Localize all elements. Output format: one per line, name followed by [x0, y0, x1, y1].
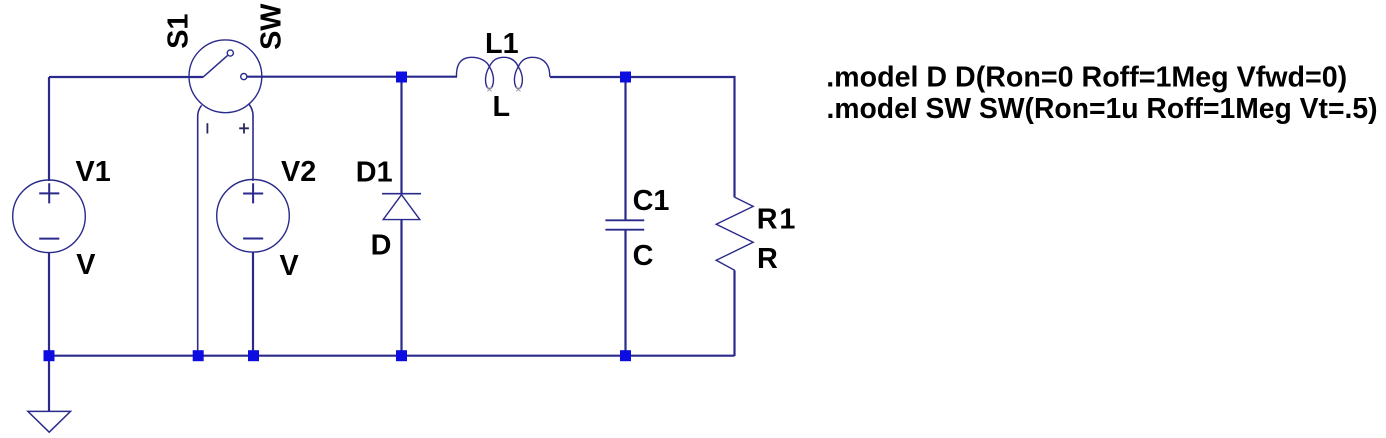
inductor pin x-mark left: [487, 87, 491, 91]
wire diode bottom: [400, 220, 402, 356]
wire capacitor top: [624, 77, 626, 220]
resistor R1 zigzag: [716, 197, 753, 270]
svg-text:C: C: [633, 240, 654, 272]
diode D1 triangle: [383, 195, 420, 220]
switch plus polarity mark: [239, 123, 249, 133]
diode D1 cathode bar: [382, 193, 421, 195]
svg-text:SW: SW: [255, 3, 287, 50]
node junction bottom at switch control: [193, 350, 204, 361]
svg-text:R: R: [757, 243, 778, 275]
wire R1 bottom: [733, 270, 735, 356]
wire switch output to inductor: [247, 76, 457, 78]
svg-text:D: D: [371, 229, 392, 261]
node junction top at diode: [396, 72, 407, 83]
node junction bottom at capacitor: [620, 350, 631, 361]
node junction bottom at diode: [396, 350, 407, 361]
node junction top at capacitor: [620, 72, 631, 83]
svg-text:V: V: [280, 250, 300, 282]
wire diode top: [400, 77, 402, 194]
svg-text:L1: L1: [485, 28, 519, 60]
wire ground stem: [48, 356, 50, 411]
wire V1 top vertical: [48, 77, 50, 181]
voltage source V1 body: [13, 180, 86, 253]
svg-text:S1: S1: [163, 14, 195, 49]
wire bottom ground rail: [48, 355, 735, 357]
ground symbol: [28, 411, 71, 432]
switch right contact circle: [241, 74, 247, 80]
wire switch plus control lead to V2: [249, 104, 253, 182]
switch lever: [203, 55, 228, 77]
wire switch minus control lead: [198, 105, 202, 356]
svg-text:C1: C1: [633, 185, 670, 217]
switch S1 body circle: [189, 40, 262, 113]
node junction bottom at V2: [248, 350, 259, 361]
svg-text:.model D D(Ron=0 Roff=1Meg Vfw: .model D D(Ron=0 Roff=1Meg Vfwd=0): [826, 61, 1347, 93]
voltage source V2 body: [217, 180, 290, 253]
node junction bottom at V1/ground: [44, 350, 55, 361]
wire inductor to top-right corner and down to R1: [550, 77, 735, 197]
svg-text:L: L: [493, 91, 511, 123]
svg-text:V1: V1: [76, 156, 111, 188]
svg-text:.model SW SW(Ron=1u Roff=1Meg: .model SW SW(Ron=1u Roff=1Meg Vt=.5): [827, 93, 1378, 125]
inductor L1 winding: [457, 57, 550, 88]
svg-text:R1: R1: [757, 204, 797, 236]
switch top contact circle: [227, 50, 233, 56]
svg-text:V2: V2: [281, 156, 316, 188]
switch minus polarity mark: [206, 123, 208, 133]
wire capacitor bottom: [624, 230, 626, 356]
capacitor C1 plates: [605, 220, 644, 229]
svg-text:V: V: [76, 249, 96, 281]
inductor pin x-mark right: [516, 87, 520, 91]
wire V2 bottom vertical: [252, 252, 254, 356]
svg-text:D1: D1: [356, 156, 393, 188]
wire V1 bottom vertical: [48, 252, 50, 356]
wire top-left horizontal from V1 branch to switch lever pivot: [49, 76, 203, 78]
